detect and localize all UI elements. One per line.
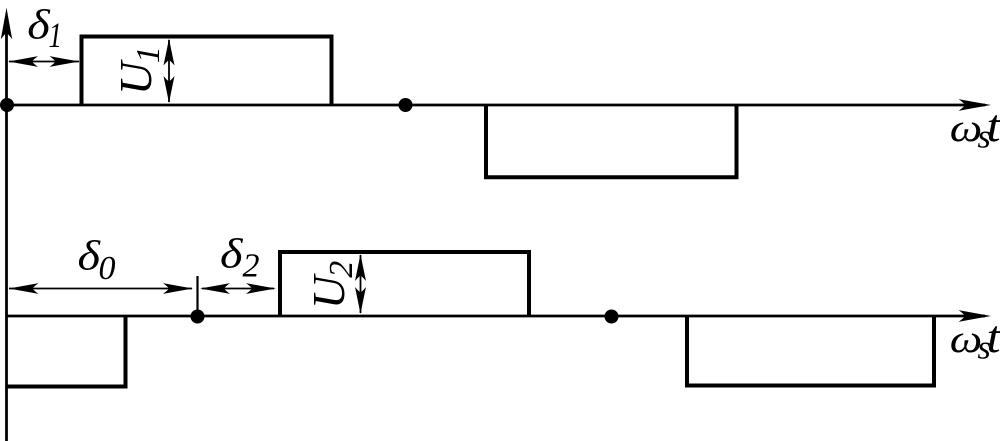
waveform U2 negative pulse (left): [7, 316, 126, 387]
node dot on axis 1: [399, 98, 413, 112]
tick above left dot: [196, 276, 198, 312]
node dot at origin of axis 1: [0, 98, 14, 112]
svg-text:U1: U1: [110, 46, 167, 95]
svg-text:δ: δ: [78, 232, 101, 278]
svg-text:0: 0: [99, 250, 116, 287]
delta2 dimension arrow: [202, 288, 274, 290]
svg-text:1: 1: [49, 15, 62, 55]
axis 1 arrowhead: [959, 99, 991, 111]
U1 amplitude double arrow: [168, 40, 170, 102]
svg-text:δ: δ: [27, 1, 50, 47]
svg-text:δ: δ: [220, 230, 243, 276]
waveform U1 positive pulse: [82, 37, 332, 106]
node dot on axis 2 (right): [605, 310, 619, 324]
waveform U2 negative pulse (right): [687, 316, 934, 386]
horizontal axis 1: [7, 104, 986, 107]
node dot on axis 2 (left): [191, 310, 205, 324]
waveform U2 positive pulse: [280, 252, 529, 316]
vertical axis: [5, 30, 8, 441]
horizontal axis 2: [7, 315, 986, 318]
axis 2 arrowhead: [959, 310, 991, 322]
svg-text:U2: U2: [303, 261, 360, 309]
delta0 dimension arrow: [9, 288, 192, 290]
svg-text:t: t: [987, 101, 1000, 151]
svg-text:2: 2: [243, 248, 260, 285]
waveform U1 negative pulse: [486, 105, 737, 177]
delta1 dimension arrow: [9, 61, 79, 63]
U2 amplitude double arrow: [360, 255, 362, 313]
vertical axis arrowhead: [1, 8, 12, 40]
svg-text:t: t: [987, 312, 1000, 362]
